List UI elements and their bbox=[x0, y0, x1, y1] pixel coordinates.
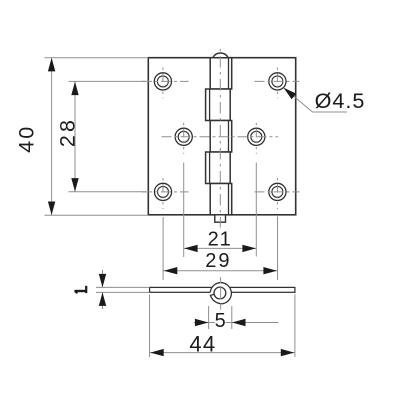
side view knuckle mask bbox=[210, 283, 231, 304]
arrow 21 right bbox=[242, 245, 256, 252]
side view centreline bbox=[220, 277, 222, 284]
dim 29 extension lines bbox=[162, 217, 164, 280]
pin dome top bbox=[213, 53, 228, 58]
knuckle segment 1 bbox=[210, 58, 232, 89]
dim 5 leader right bbox=[226, 322, 232, 324]
knuckle segment 4 bbox=[206, 152, 231, 184]
dim 29 line bbox=[163, 270, 277, 272]
arrow 21 left bbox=[184, 245, 198, 252]
arrow 1 lower bbox=[99, 292, 106, 306]
centre mark hole bottom-right bbox=[255, 191, 300, 193]
arrow 5 right bbox=[232, 319, 246, 326]
pin centreline bbox=[219, 49, 221, 228]
centre mark hole mid-right vertical bbox=[255, 123, 257, 154]
svg-text:28: 28 bbox=[56, 117, 80, 147]
centre marks (dash-dot) bbox=[142, 49, 300, 228]
hole bottom-right bbox=[269, 183, 286, 200]
dim 1 extension lines bbox=[96, 286, 150, 288]
dim 5 leader left bbox=[194, 322, 209, 324]
dim 40 line bbox=[51, 58, 53, 216]
centre mark hole top-right bbox=[255, 80, 300, 82]
hole top-right bbox=[269, 73, 286, 90]
side view knuckle outer curl outline with bulge and end face bbox=[210, 283, 231, 304]
arrow dia4.5 bbox=[284, 88, 297, 100]
dim 21 line bbox=[184, 247, 257, 249]
centre mark hole top-left bbox=[142, 80, 189, 82]
dim 44 line bbox=[150, 352, 295, 354]
dia 4.5 leader line bbox=[284, 88, 313, 112]
knuckle segment 5 bbox=[210, 184, 232, 215]
side view pin hole inner circle bbox=[214, 287, 226, 299]
knuckle segment 5 sheet edge bbox=[228, 184, 230, 215]
svg-text:40: 40 bbox=[15, 125, 39, 153]
hole mid-right bbox=[248, 128, 265, 145]
arrow 44 right bbox=[281, 349, 295, 356]
arrow 29 left bbox=[164, 267, 178, 274]
knuckle segment 3 bbox=[210, 121, 232, 153]
svg-text:29: 29 bbox=[205, 250, 231, 272]
knuckle segment 3 sheet edge bbox=[228, 121, 230, 153]
hole bottom-left bbox=[154, 183, 171, 200]
dim 28 line bbox=[74, 81, 76, 191]
arrow 40 top bbox=[48, 58, 55, 72]
arrowheads bbox=[48, 58, 296, 356]
dim 5 extension lines bbox=[208, 306, 210, 329]
svg-text:5: 5 bbox=[215, 310, 226, 332]
arrow 1 upper bbox=[99, 274, 106, 288]
dim 44 extension lines bbox=[149, 295, 151, 358]
knuckle segment 4 sheet edge bbox=[209, 152, 211, 184]
arrow 40 bottom bbox=[48, 202, 55, 216]
svg-text:21: 21 bbox=[208, 229, 232, 251]
arrow 29 right bbox=[263, 267, 277, 274]
arrow 28 top bbox=[71, 82, 78, 96]
dimension texts bbox=[15, 88, 366, 357]
centre mark hole bottom-left bbox=[142, 191, 189, 193]
pin bottom tab bbox=[215, 215, 226, 222]
dim 21 extension lines bbox=[183, 163, 185, 258]
arrow 44 left bbox=[150, 349, 164, 356]
dim 40 extension lines bbox=[45, 57, 149, 59]
dim 1 line bbox=[102, 270, 104, 287]
svg-text:44: 44 bbox=[189, 332, 216, 357]
dim 28 extension lines bbox=[69, 80, 147, 82]
arrow 5 left bbox=[195, 319, 209, 326]
hole mid-left bbox=[175, 128, 192, 145]
side view left leaf bar bbox=[150, 287, 221, 292]
arrow 28 bottom bbox=[71, 178, 78, 192]
knuckle segment 1 sheet edge bbox=[228, 58, 230, 89]
centre mark hole mid-left vertical bbox=[183, 123, 185, 154]
hole top-left bbox=[154, 73, 171, 90]
knuckle segment 2 bbox=[206, 89, 231, 121]
svg-text:Ø4.5: Ø4.5 bbox=[315, 88, 366, 113]
middle row centreline bbox=[162, 136, 279, 138]
knuckle segment 2 sheet edge bbox=[209, 89, 211, 121]
side view right leaf bar bbox=[221, 287, 295, 292]
plate outline bbox=[148, 58, 295, 215]
text 1 (custom glyph with foot serif) bbox=[75, 286, 88, 294]
